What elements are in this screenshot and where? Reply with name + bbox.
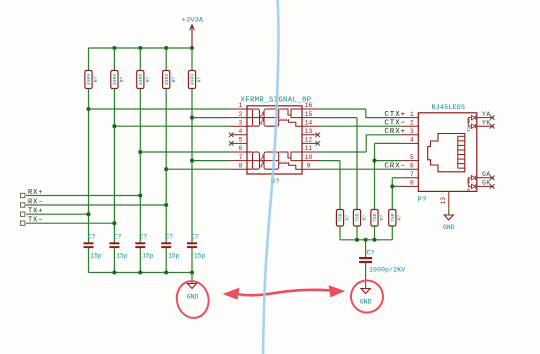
LED internal wires top [468,118,471,127]
junction right rail x=357 [355,238,359,242]
svg-text:3: 3 [239,119,243,126]
wire XFMR pin16 to corner [319,108,366,110]
svg-text:5: 5 [239,137,243,144]
svg-text:R?: R? [119,77,125,83]
XFMR winding unit top (pins 1,2,3 / 16,15,14) [247,109,302,126]
svg-text:+3V3A: +3V3A [182,17,204,25]
LED pin YA (12) [468,111,494,124]
svg-text:49R9: 49R9 [190,74,196,86]
capacitor C3 15p [135,234,153,273]
power +3V3A [182,17,204,49]
RJ45 pin 6 stub [401,168,418,170]
svg-text:11: 11 [468,126,472,132]
svg-text:4: 4 [410,137,414,144]
unconnected square TX- [21,221,25,225]
svg-text:R?: R? [344,215,350,221]
RJ45 pin 13 stub [448,191,450,208]
junction col3 pin6 [138,150,142,154]
resistor R7 75R [353,210,367,240]
resistor R4 49R9 [163,48,177,89]
svg-text:GND: GND [187,294,199,301]
svg-text:16: 16 [305,102,313,109]
LED internal wires bottom [468,178,471,187]
unconnected square TX+ [21,212,25,216]
connector P? RJ45LEDS box [418,113,477,192]
wire column 3 vertical [139,89,141,243]
ground GND left [187,284,199,301]
capacitor C2 15p [109,234,127,273]
capacitor C1 15p [84,234,102,273]
transformer U? XFRMR_SIGNAL_8P box [247,106,302,174]
unconnected square RX- [21,203,25,207]
wire col5 to XFMR pin7 [192,160,230,162]
svg-text:8: 8 [410,180,414,187]
svg-text:R?: R? [93,77,99,83]
svg-text:49R9: 49R9 [138,74,144,86]
junction bottom rail x=114.4 [112,270,116,274]
svg-text:R?: R? [379,215,385,221]
wire XFMR pin11 to corner [319,151,366,153]
svg-text:R?: R? [171,77,177,83]
svg-text:15p: 15p [142,253,153,260]
svg-text:R?: R? [145,77,151,83]
wire RJ45 pin4 to corner [375,142,402,144]
annotation red circle around right GND [349,278,385,314]
XFMR pin 13 stub [302,134,319,136]
svg-text:RX−: RX− [28,198,43,206]
wire RJ45 pin5 row [375,160,402,162]
svg-text:10: 10 [468,178,472,184]
svg-text:R?: R? [361,215,367,221]
junction right rail x=365.6 [364,238,368,242]
junction pin7/pin8 vertical [390,184,394,188]
wire pin13 to GND [448,208,450,215]
svg-text:CTX−: CTX− [384,120,406,128]
svg-text:9: 9 [307,162,311,169]
XFMR pin 1 stub [230,108,247,110]
wire XFMR pin14 to RJ45 pin2 (CTX-) [319,125,401,127]
svg-text:C?: C? [113,234,121,241]
resistor R6 75R [336,210,350,240]
resistor R1 49R9 [85,48,99,89]
svg-text:15p: 15p [194,253,205,260]
junction col5 pin2 [190,116,194,120]
RJ45 jack symbol [428,134,465,172]
XFMR pin 12 stub [302,142,319,144]
svg-text:GND: GND [360,299,372,306]
svg-text:CRX−: CRX− [384,163,406,171]
wire to GND left [191,273,193,284]
junction on top rail x=166.2 [164,46,168,50]
svg-text:1: 1 [410,111,414,118]
svg-text:7: 7 [239,154,243,161]
wire RJ45 pin7 to corner [392,177,401,179]
RJ45 pin 4 stub [401,142,418,144]
XFMR pin 11 stub [302,151,319,153]
svg-text:3: 3 [410,128,414,135]
no-connect X GK [490,184,495,189]
wire col3 to XFMR pin6 [140,151,230,153]
svg-text:2: 2 [410,119,414,126]
svg-text:8: 8 [239,162,243,169]
svg-text:6: 6 [239,145,243,152]
svg-text:YK: YK [482,119,491,126]
svg-text:GA: GA [482,171,491,178]
svg-text:10: 10 [305,154,313,161]
svg-text:RJ45LEDS: RJ45LEDS [432,104,466,111]
svg-text:15p: 15p [91,253,102,260]
wire col2 to XFMR pin3 [114,125,230,127]
RJ45 pin 3 stub [401,134,418,136]
XFMR pin 10 stub [302,160,319,162]
svg-text:4: 4 [239,128,243,135]
wire col5 to XFMR pin2 [192,117,230,119]
unconnected square RX+ [21,193,25,197]
wire col1 to XFMR pin1 [89,108,231,110]
wire pin4 corner down to resistor [374,143,376,209]
junction col1 pin1 [86,107,90,111]
no-connect X pin 5 [229,141,234,146]
svg-text:75R: 75R [372,213,378,222]
svg-text:TX+: TX+ [28,208,43,216]
wire RJ45 pin8 row [392,185,401,187]
svg-text:7: 7 [410,171,414,178]
XFMR pin 4 stub [230,134,247,136]
wire corner down to CTX+ row [365,109,367,118]
svg-text:YA: YA [482,111,491,118]
svg-text:75R: 75R [338,213,344,222]
svg-text:C?: C? [191,234,199,241]
resistor R3 49R9 [137,48,151,89]
svg-text:49R9: 49R9 [86,74,92,86]
RJ45 pin 7 stub [401,177,418,179]
svg-text:15p: 15p [116,253,127,260]
wire column 4 vertical [165,89,167,243]
XFMR pin 7 stub [230,160,247,162]
junction TX+ col1 [86,212,90,216]
RJ45 pin 2 stub [401,125,418,127]
junction col2 pin3 [112,124,116,128]
svg-text:49R9: 49R9 [164,74,170,86]
LED pin GK (9) [468,180,494,191]
wire label TX+ [26,213,89,215]
junction bottom rail x=166.2 [164,270,168,274]
junction right rail x=374.5 [372,238,376,242]
svg-text:15p: 15p [168,253,179,260]
svg-text:75R: 75R [355,213,361,222]
ground GND right [360,289,372,306]
junction on top rail x=140.3 [138,46,142,50]
svg-text:14: 14 [305,119,313,126]
RJ45 pin 5 stub [401,160,418,162]
svg-text:C?: C? [139,234,147,241]
XFMR pin 5 stub [230,142,247,144]
svg-text:1000p/2KV: 1000p/2KV [369,267,405,274]
annotation red double arrow [223,285,346,300]
blue wavy separator line [263,0,278,354]
junction col4 pin8 [164,167,168,171]
junction on top rail x=114.4 [112,46,116,50]
no-connect X pin 4 [229,133,234,138]
resistor R9 75R [389,210,403,240]
junction pin4/pin5 vertical [372,159,376,163]
svg-text:1: 1 [239,102,243,109]
XFMR pin 2 stub [230,117,247,119]
svg-text:GND: GND [443,224,455,231]
junction col5 pin7 [190,159,194,163]
svg-text:CRX+: CRX+ [384,128,406,136]
wire label TX- [26,222,114,224]
svg-text:C?: C? [165,234,173,241]
XFMR pin 15 stub [302,117,319,119]
capacitor C4 15p [161,234,179,273]
svg-text:CTX+: CTX+ [384,111,406,119]
wire column 2 vertical [113,89,115,243]
RJ45 pin 1 stub [401,117,418,119]
svg-text:13: 13 [305,128,313,135]
wire XFMR pin15 to corner [319,117,357,119]
no-connect X YA [490,115,495,120]
wire +3V3A top rail [89,47,193,49]
svg-text:12: 12 [468,118,472,124]
wire pin15 corner down to resistor [356,118,358,210]
svg-text:6: 6 [410,162,414,169]
svg-text:2: 2 [239,111,243,118]
XFMR pin 8 stub [230,168,247,170]
XFMR winding unit bottom (pins 6,7,8 / 11,10,9) [247,152,302,169]
svg-text:49R9: 49R9 [112,74,118,86]
wire label RX- [26,204,166,206]
svg-text:11: 11 [305,145,313,152]
ground GND RJ45 [443,215,455,231]
resistor R2 49R9 [111,48,125,89]
wire label RX+ [26,195,140,197]
svg-text:R?: R? [397,215,403,221]
svg-text:TX−: TX− [28,217,43,225]
junction on top rail x=192.0 [190,46,194,50]
capacitor C5 15p [187,234,205,273]
junction RX- col4 [164,203,168,207]
junction TX- col2 [112,221,116,225]
svg-text:13: 13 [440,197,447,205]
junction RX+ col3 [138,193,142,197]
wire column 1 vertical [88,89,90,243]
no-connect X pin 13 [316,133,321,138]
wire col4 to XFMR pin8 [166,168,230,170]
wire XFMR pin10 to corner [319,160,340,162]
wire CRX+ to RJ45 pin3 [366,134,401,136]
LED pin GA (10) [468,171,494,184]
XFMR pin 3 stub [230,125,247,127]
svg-text:12: 12 [305,137,313,144]
svg-text:C?: C? [367,250,375,257]
wire bottom capacitor rail [89,272,193,274]
wire CTX+ to RJ45 pin1 [366,117,402,119]
svg-text:R?: R? [197,77,203,83]
wire corner up to CRX+ row [365,135,367,152]
no-connect X YK [490,124,495,129]
wire pin10 corner down to resistor [339,161,341,210]
capacitor C6 1000p/2KV [359,240,405,289]
wire column 5 vertical [191,89,193,243]
svg-text:P?: P? [418,197,427,205]
svg-text:C?: C? [88,234,96,241]
resistor R5 49R9 [188,48,202,89]
no-connect X pin 12 [316,141,321,146]
junction bottom rail gnd [190,270,194,274]
svg-text:GK: GK [482,180,491,187]
wire right resistor rail [340,239,392,241]
wire XFMR pin9 to RJ45 pin6 (CRX-) [319,168,401,170]
LED pin YK (11) [468,119,494,132]
junction bottom rail x=140.3 [138,270,142,274]
XFMR pin 6 stub [230,151,247,153]
svg-text:5: 5 [410,154,414,161]
svg-text:RX+: RX+ [28,189,43,197]
XFMR pin 16 stub [302,108,319,110]
no-connect X GA [490,176,495,181]
XFMR pin 14 stub [302,125,319,127]
svg-text:15: 15 [305,111,313,118]
RJ45 pin 8 stub [401,185,418,187]
svg-text:75R: 75R [390,213,396,222]
wire pin7 corner down to resistor [391,178,393,210]
XFMR pin 9 stub [302,168,319,170]
annotation red circle around left GND [173,278,212,321]
resistor R8 75R [371,210,385,240]
